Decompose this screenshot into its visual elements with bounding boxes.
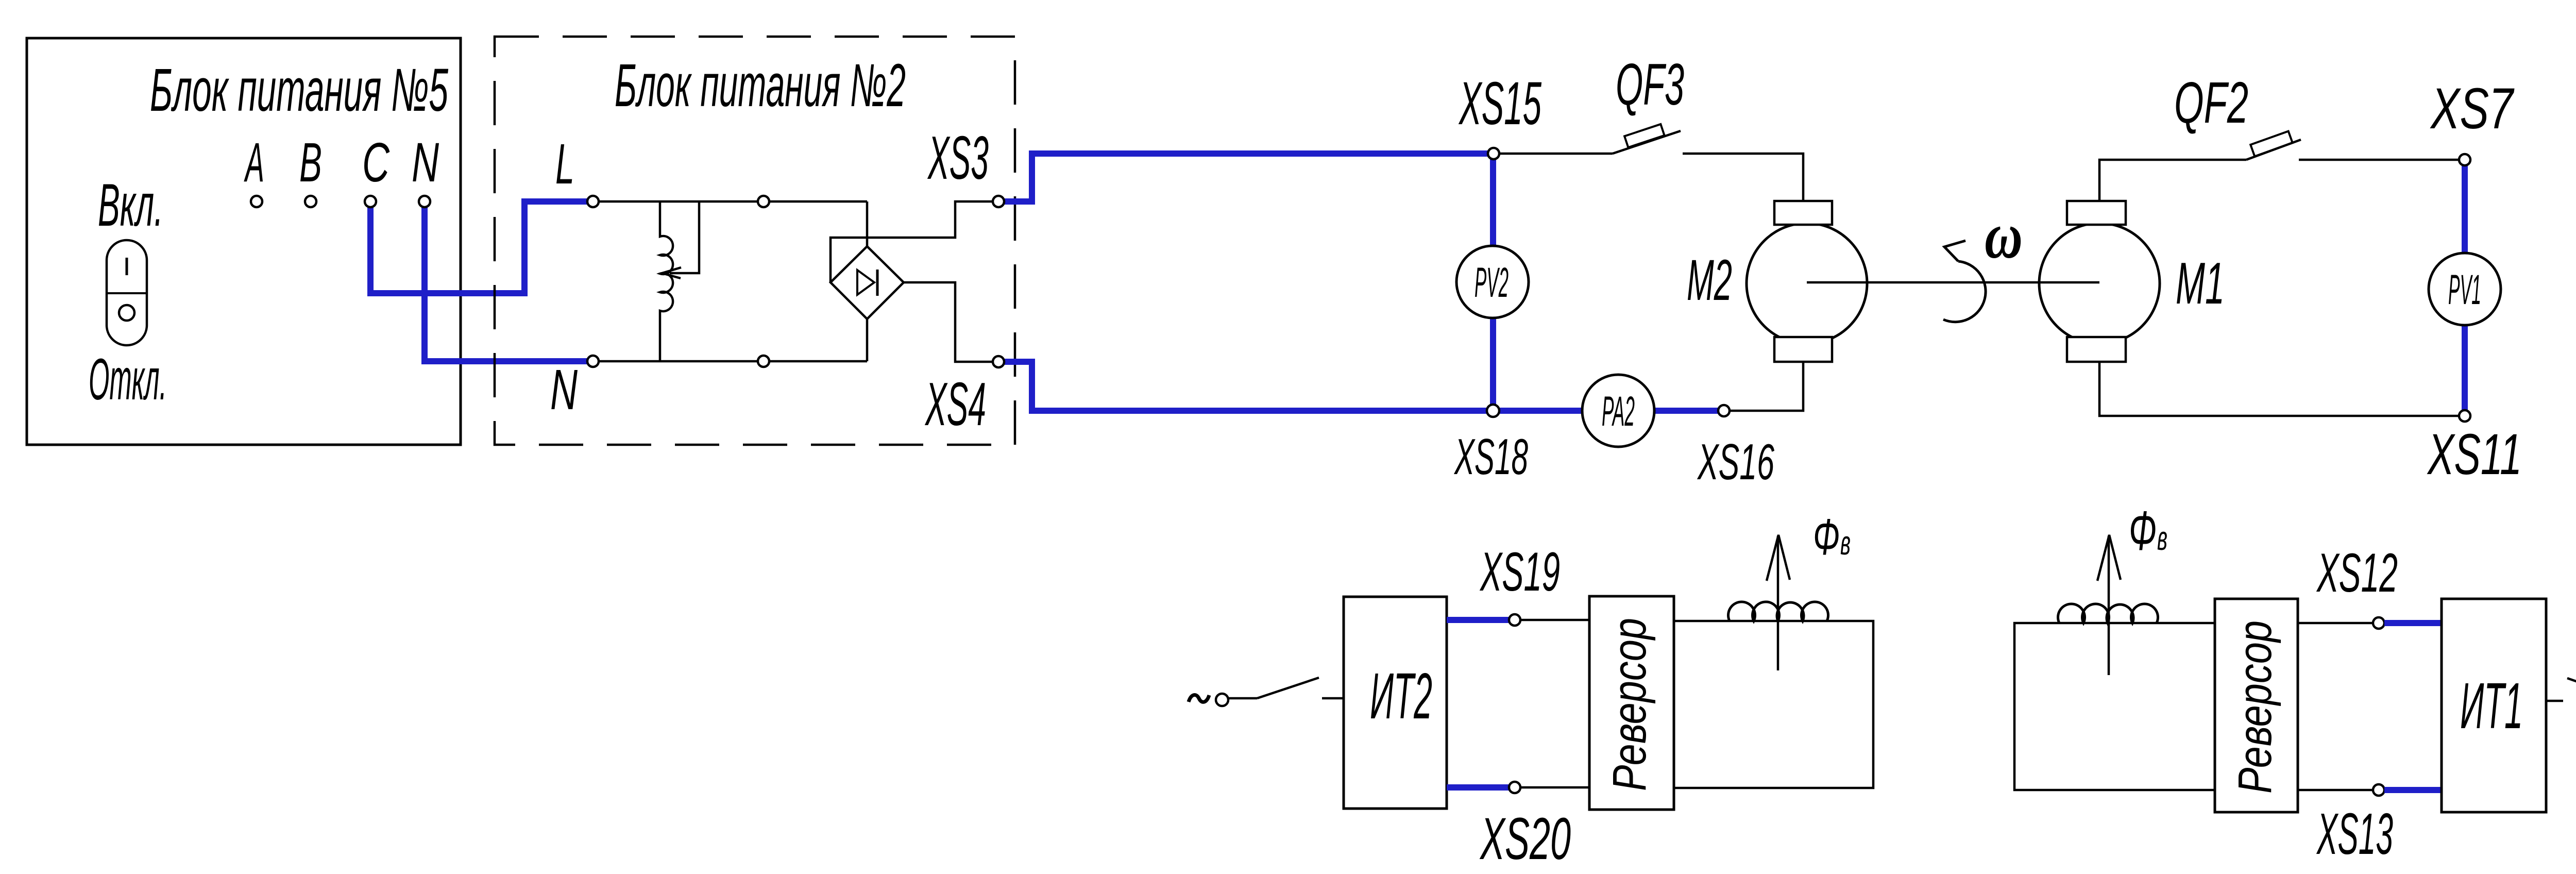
terminal XS16 <box>1718 405 1730 416</box>
wire stub from IT1 <box>2546 700 2563 702</box>
wire from bridge bottom <box>866 319 869 361</box>
AC source tilde (left) <box>1189 695 1209 702</box>
svg-text:XS16: XS16 <box>1697 433 1775 490</box>
svg-text:XS3: XS3 <box>927 124 989 192</box>
terminal XS3 <box>993 196 1004 207</box>
svg-text:Φ: Φ <box>1813 508 1840 565</box>
wire QF3 to M2 <box>1683 154 1803 201</box>
box IT2 <box>1344 597 1447 809</box>
flux arrowhead (right) <box>2097 535 2121 581</box>
power supply box 2 (Блок питания №2, dashed) <box>495 37 1015 445</box>
autotransformer winding T1 <box>660 201 673 361</box>
svg-text:Блок питания №2: Блок питания №2 <box>615 52 906 120</box>
terminal XS15 <box>1488 148 1499 159</box>
box IT1 <box>2442 599 2546 812</box>
wire M1 to XS11 <box>2099 362 2459 416</box>
wire XS12 to IT1 blue <box>2384 620 2442 626</box>
motor M2 <box>1747 223 1867 344</box>
terminal N <box>419 196 430 207</box>
svg-text:XS12: XS12 <box>2316 542 2398 603</box>
wire XS4 to XS18 to PA2 blue <box>1004 362 1582 411</box>
voltmeter PV1 <box>2429 253 2501 325</box>
svg-text:B: B <box>299 131 322 193</box>
svg-text:Реверсор: Реверсор <box>2229 620 2281 794</box>
breaker QF3 body <box>1624 124 1664 147</box>
svg-text:QF2: QF2 <box>2174 70 2248 135</box>
flux arrowhead (left) <box>1767 535 1790 581</box>
svg-text:Откл.: Откл. <box>89 347 167 412</box>
wire XS15 to PV2 blue <box>1490 159 1496 246</box>
terminal (left source) <box>1216 694 1228 706</box>
svg-text:в: в <box>1840 524 1851 562</box>
wire XS20 to reversor <box>1521 786 1589 789</box>
wire XS3 to XS15 blue <box>1004 154 1488 201</box>
motor M1 <box>2039 223 2160 344</box>
terminal XS19 <box>1509 614 1520 626</box>
svg-text:C: C <box>362 131 390 193</box>
svg-text:ω: ω <box>1985 199 2023 272</box>
motor shaft M2-M1 <box>1807 281 2099 284</box>
flux arrow (left) <box>1777 536 1780 670</box>
svg-text:Φ: Φ <box>2129 499 2157 562</box>
wiper arrowhead <box>662 267 681 278</box>
field winding LM2 <box>1728 602 1828 621</box>
wire PV2 to XS18 blue <box>1490 317 1496 411</box>
terminal on top rail <box>758 196 769 207</box>
wire reversor to XS12 <box>2298 622 2373 625</box>
terminal XS12 <box>2373 617 2384 629</box>
wire stub to IT2 <box>1322 697 1344 700</box>
toggle switch on-mark <box>126 258 128 275</box>
svg-text:XS20: XS20 <box>1479 806 1571 872</box>
terminal XS13 <box>2373 784 2384 796</box>
toggle switch body <box>107 240 147 345</box>
svg-text:PV2: PV2 <box>1475 259 1509 306</box>
wire IT2 to XS19 blue <box>1447 617 1509 623</box>
terminal XS7 <box>2459 154 2470 165</box>
wire bottom N rail <box>599 360 867 363</box>
toggle switch divider <box>107 292 147 294</box>
svg-text:XS4: XS4 <box>924 370 986 439</box>
field winding loop (right) <box>2014 623 2215 790</box>
bridge rectifier VD1 <box>831 246 904 319</box>
svg-text:в: в <box>2157 519 2167 557</box>
voltmeter PV2 <box>1456 246 1529 318</box>
box reversor (left) <box>1589 596 1674 810</box>
svg-text:PV1: PV1 <box>2448 266 2481 313</box>
svg-text:XS18: XS18 <box>1454 428 1528 485</box>
svg-text:ИТ1: ИТ1 <box>2460 669 2523 742</box>
wire to bridge top <box>866 201 869 246</box>
svg-text:N: N <box>550 358 578 422</box>
wire IT2 to XS20 blue <box>1447 784 1509 791</box>
diode cathode bar <box>876 270 879 296</box>
breaker QF2 body <box>2250 131 2293 157</box>
svg-text:A: A <box>244 131 264 193</box>
svg-text:L: L <box>555 132 574 196</box>
svg-text:XS7: XS7 <box>2430 76 2515 141</box>
svg-text:QF3: QF3 <box>1616 52 1684 117</box>
wire bridge minus to XS4 <box>904 282 993 362</box>
svg-text:Блок питания №5: Блок питания №5 <box>150 56 448 124</box>
svg-text:N: N <box>412 131 439 193</box>
wire top L rail <box>599 200 867 203</box>
power supply box 5 (Блок питания №5) <box>27 38 461 445</box>
M1 top brush <box>2067 201 2126 225</box>
terminal L <box>587 196 599 207</box>
rotation arrow arc <box>1943 261 1986 322</box>
box reversor (right) <box>2215 599 2298 812</box>
svg-text:XS15: XS15 <box>1458 70 1541 138</box>
ammeter PA2 <box>1582 375 1654 447</box>
breaker QF2 blade <box>2246 140 2301 160</box>
terminal A <box>251 196 262 207</box>
wiper arm wire <box>670 201 699 273</box>
terminal XS11 <box>2459 410 2470 422</box>
terminal XS20 <box>1509 782 1520 793</box>
wire XS13 to IT1 blue <box>2384 787 2442 793</box>
terminal C <box>365 196 376 207</box>
svg-text:Реверсор: Реверсор <box>1603 618 1656 791</box>
wire QF2 to XS7 <box>2299 159 2459 161</box>
svg-text:XS19: XS19 <box>1479 541 1560 602</box>
diode symbol <box>857 270 874 295</box>
svg-text:M1: M1 <box>2176 251 2225 316</box>
switch blade (right) <box>2567 678 2576 701</box>
M2 top brush <box>1774 201 1832 225</box>
wire bridge plus to XS3 <box>831 201 993 282</box>
terminal N (box2) <box>587 356 599 367</box>
field winding LM1 <box>2058 604 2158 623</box>
wire M1 to QF2 <box>2099 160 2246 201</box>
switch blade (left) <box>1257 678 1319 698</box>
wire XS15 to QF3 <box>1499 153 1613 155</box>
wire PV1 to XS11 blue <box>2462 325 2468 411</box>
switch wire (left) <box>1229 697 1257 700</box>
rotation arrowhead <box>1944 241 1965 261</box>
svg-text:PA2: PA2 <box>1602 388 1635 435</box>
toggle switch off-mark <box>119 305 134 321</box>
breaker QF3 blade <box>1613 131 1681 154</box>
svg-text:XS13: XS13 <box>2316 801 2393 866</box>
terminal on bottom rail <box>758 356 769 367</box>
wire XS19 to reversor <box>1521 619 1589 621</box>
M2 bottom brush <box>1774 337 1832 362</box>
field winding loop (left) <box>1674 621 1873 788</box>
terminal XS4 <box>993 356 1004 367</box>
wire N blue <box>425 205 587 361</box>
wire PA2 to XS16 blue <box>1654 408 1719 414</box>
wire C blue <box>370 201 587 293</box>
svg-text:ИТ2: ИТ2 <box>1370 660 1432 732</box>
wire XS7 to PV1 blue <box>2462 165 2468 254</box>
M1 bottom brush <box>2067 337 2126 362</box>
terminal XS18 <box>1487 405 1499 417</box>
svg-text:Вкл.: Вкл. <box>98 171 163 239</box>
svg-text:M2: M2 <box>1687 248 1732 312</box>
wire M2 to XS16 <box>1730 362 1803 411</box>
wire reversor to XS13 <box>2298 789 2373 792</box>
flux arrow (right) <box>2108 536 2110 675</box>
svg-text:XS11: XS11 <box>2427 422 2522 486</box>
terminal B <box>305 196 316 207</box>
